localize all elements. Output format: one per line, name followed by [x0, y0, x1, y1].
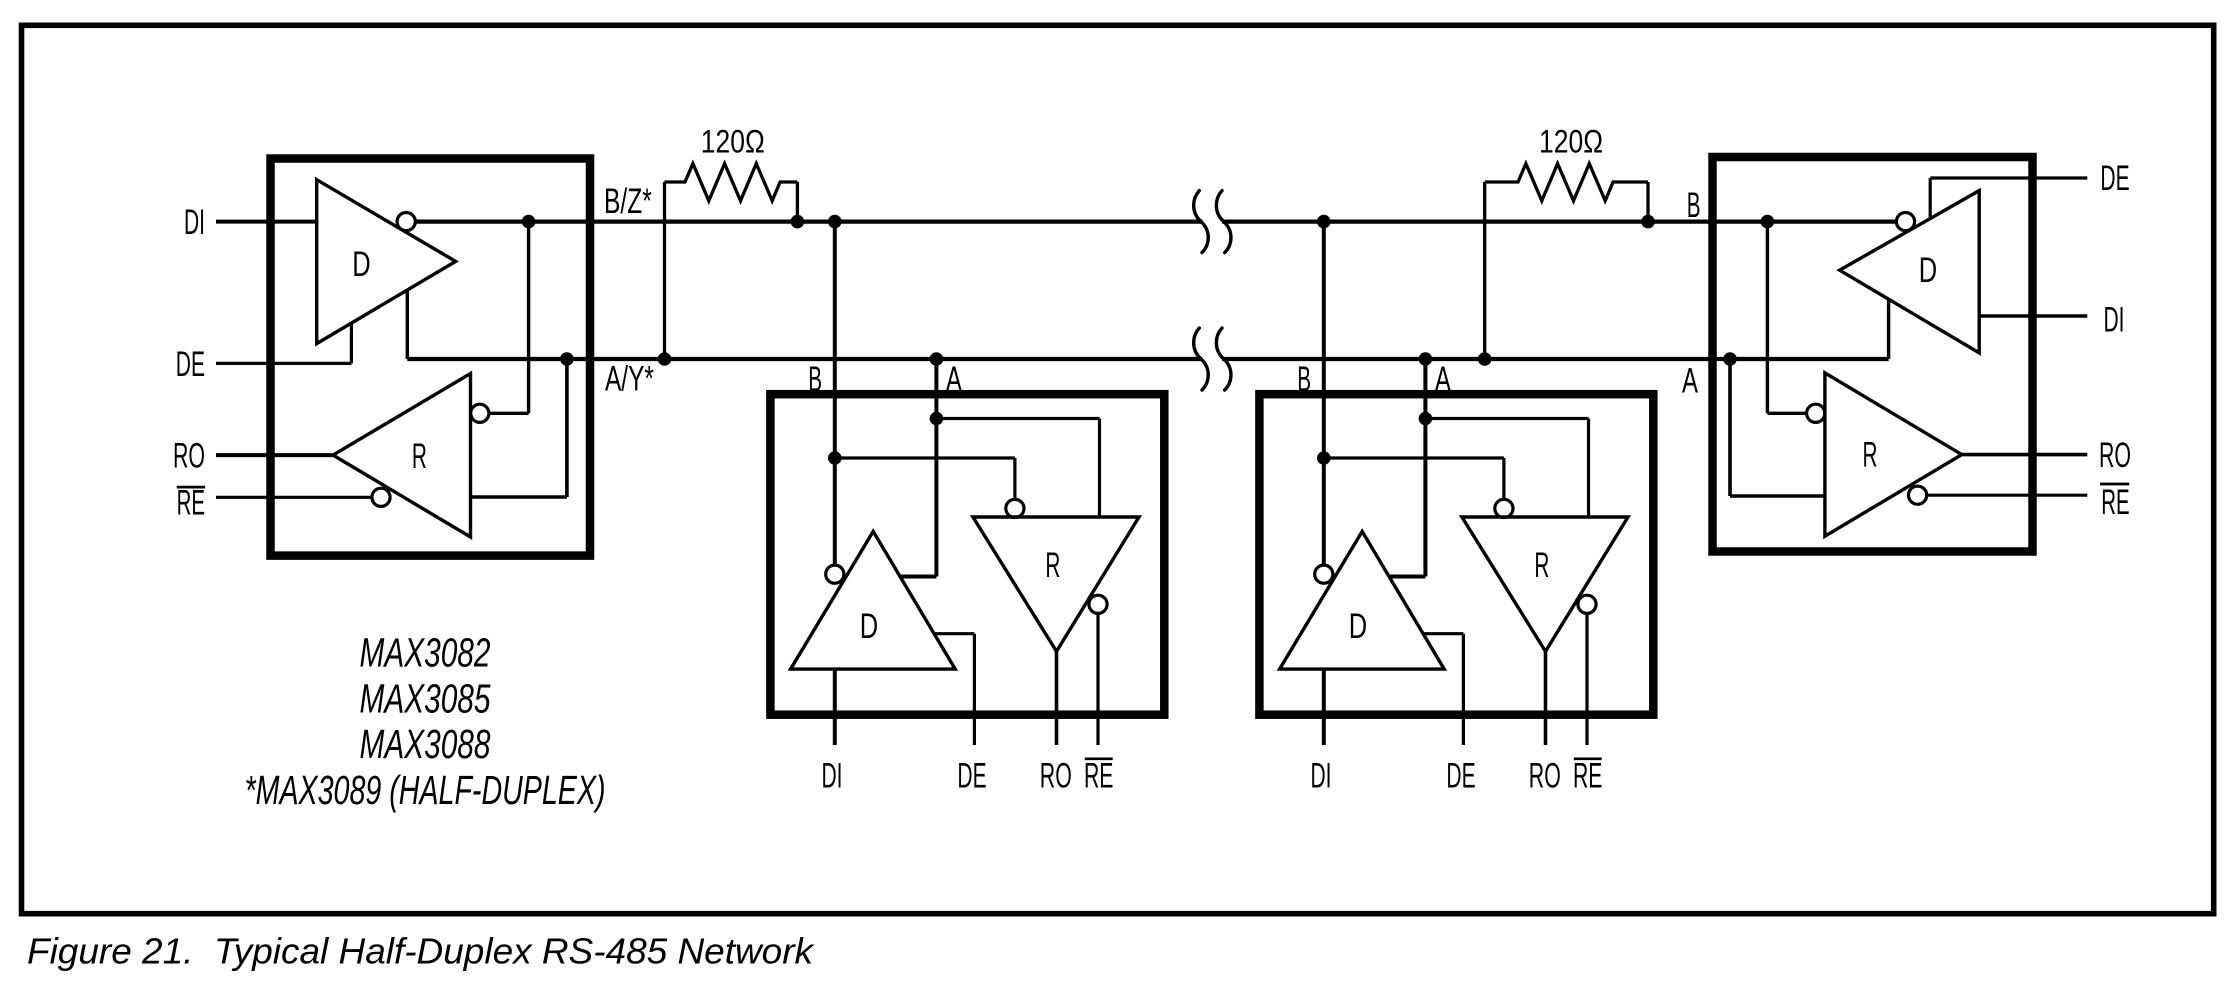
node A junction on A/Y bus for U2	[930, 352, 944, 366]
svg-text:RO: RO	[2099, 436, 2131, 475]
svg-text:RO: RO	[173, 437, 205, 476]
wire A branch to receiver noninverting input U3	[1425, 417, 1588, 420]
transceiver U1 box	[271, 159, 591, 556]
svg-text:*MAX3089 (HALF-DUPLEX): *MAX3089 (HALF-DUPLEX)	[245, 767, 606, 813]
svg-text:DI: DI	[1311, 757, 1332, 796]
wire A/Y junction down to receiver noninverting input U1	[565, 359, 569, 497]
receiver R triangle U3	[1462, 517, 1628, 651]
node A/Y junction inside U1	[560, 352, 574, 366]
wire RO output U4	[1962, 453, 2088, 457]
node B branch junction U2	[828, 451, 842, 465]
wire B/Z bus left segment	[415, 219, 1202, 223]
svg-text:MAX3085: MAX3085	[360, 675, 491, 721]
bubble receiver enable RE U1	[372, 488, 390, 506]
wire DE enable U2	[934, 632, 974, 635]
svg-text:A: A	[946, 360, 962, 399]
svg-text:RE: RE	[177, 483, 205, 522]
wire DI input U4	[1979, 314, 2087, 318]
node B junction on B/Z bus for U3	[1317, 215, 1331, 229]
svg-text:D: D	[352, 245, 370, 284]
node R2 right lead junction on B/Z	[1641, 215, 1655, 229]
svg-text:D: D	[860, 607, 878, 646]
wire driver noninverting output to A line U4	[1887, 299, 1890, 359]
svg-text:A: A	[1682, 362, 1698, 401]
wire from B/Z junction down to receiver inverting input U1	[527, 222, 530, 414]
bubble receiver inverting input U3	[1495, 499, 1513, 517]
svg-text:R: R	[412, 437, 427, 476]
wire A junction down to receiver noninverting input U4	[1728, 359, 1732, 496]
svg-text:DE: DE	[2100, 159, 2129, 198]
transceiver U4 box	[1713, 157, 2033, 552]
bubble receiver enable RE U2	[1089, 595, 1107, 613]
bubble receiver inverting input U1	[471, 404, 489, 422]
svg-text:DI: DI	[822, 757, 843, 796]
driver D triangle U4	[1840, 191, 1980, 353]
wire RE input U1	[216, 496, 372, 499]
wire B branch to receiver inverting input U3	[1324, 456, 1504, 459]
svg-text:A/Y*: A/Y*	[605, 360, 654, 399]
node R1 left lead junction on A/Y	[658, 352, 672, 366]
bubble receiver enable RE U4	[1909, 486, 1927, 504]
receiver R triangle U1	[333, 374, 471, 538]
bus break marks on A/Y line	[1194, 328, 1209, 390]
svg-text:MAX3082: MAX3082	[360, 630, 491, 676]
wire DI input U3	[1322, 669, 1326, 745]
svg-text:120Ω: 120Ω	[1539, 124, 1603, 160]
svg-text:B/Z*: B/Z*	[604, 182, 652, 221]
node A junction inside U4	[1723, 352, 1737, 366]
wire B junction down to receiver inverting input U4	[1766, 222, 1769, 414]
wire A input vertical U2	[934, 359, 938, 577]
bus break marks on B/Z line	[1194, 191, 1209, 253]
wire A branch to receiver noninverting input U2	[936, 417, 1099, 420]
wire B branch to receiver inverting input U2	[835, 456, 1015, 459]
svg-text:B: B	[1297, 360, 1311, 399]
wire R1 left lead to A/Y line	[663, 182, 666, 359]
svg-text:DI: DI	[184, 203, 205, 242]
svg-text:RE: RE	[2101, 483, 2129, 522]
svg-text:DE: DE	[957, 757, 986, 796]
resistor R1 body 120 ohm	[665, 164, 798, 201]
bubble driver inverting input U3	[1315, 565, 1333, 583]
wire B input vertical U3	[1322, 222, 1326, 566]
bubble driver inverting input U2	[826, 565, 844, 583]
svg-text:B: B	[1687, 186, 1701, 225]
wire RO output U3	[1544, 651, 1548, 745]
svg-text:B: B	[808, 360, 822, 399]
wire A input vertical U3	[1423, 359, 1427, 577]
bubble receiver inverting input U2	[1006, 499, 1024, 517]
wire R2 right lead to B/Z line	[1646, 182, 1649, 222]
svg-text:DE: DE	[176, 345, 205, 384]
svg-text:RE: RE	[1084, 757, 1114, 796]
wire B input vertical U2	[833, 222, 837, 566]
wire DE enable U3	[1423, 632, 1463, 635]
node A branch junction U3	[1419, 412, 1433, 426]
svg-text:DE: DE	[1446, 757, 1475, 796]
bubble driver inverting output U1	[397, 213, 415, 231]
receiver R triangle U2	[973, 517, 1139, 651]
bubble receiver inverting input U4	[1807, 404, 1825, 422]
wire driver noninverting output to A/Y U1	[406, 290, 409, 359]
svg-text:R: R	[1045, 546, 1060, 585]
wire DE enable U4	[1929, 178, 1932, 218]
wire DI input U1	[216, 220, 317, 224]
svg-text:RE: RE	[1573, 757, 1603, 796]
node R1 right lead junction on B/Z	[791, 215, 805, 229]
wire DE input U1	[216, 362, 351, 365]
svg-text:RO: RO	[1529, 757, 1561, 796]
driver D triangle U3	[1280, 531, 1445, 669]
node A junction on A/Y bus for U3	[1419, 352, 1433, 366]
node B branch junction U3	[1317, 451, 1331, 465]
wire R2 left lead to A/Y line	[1483, 182, 1486, 359]
svg-text:120Ω: 120Ω	[701, 124, 765, 160]
wire RE input U3	[1585, 613, 1588, 745]
wire RO output U2	[1055, 651, 1059, 745]
driver D triangle U1	[317, 180, 456, 344]
wire RE input U2	[1096, 613, 1099, 745]
driver D triangle U2	[791, 531, 956, 669]
svg-text:DI: DI	[2104, 301, 2125, 340]
svg-text:D: D	[1349, 607, 1367, 646]
wire driver noninverting output U3	[1389, 575, 1425, 579]
wire R1 right lead to B/Z line	[796, 182, 799, 222]
svg-text:RO: RO	[1040, 757, 1072, 796]
svg-text:Figure 21. Typical Half-Duple: Figure 21. Typical Half-Duplex RS-485 Ne…	[27, 931, 815, 972]
receiver R triangle U4	[1825, 373, 1962, 536]
wire A/Y bus left segment	[407, 357, 1202, 361]
wire B/Z bus right segment	[1222, 219, 1896, 223]
svg-text:R: R	[1863, 436, 1878, 475]
bubble receiver enable RE U3	[1578, 595, 1596, 613]
wire DI input U2	[833, 669, 837, 745]
svg-text:A: A	[1435, 360, 1451, 399]
wire RO output U1	[216, 453, 333, 457]
node B/Z junction inside U1	[522, 215, 536, 229]
bubble driver inverting input U4	[1896, 213, 1914, 231]
node A branch junction U2	[930, 412, 944, 426]
svg-text:MAX3088: MAX3088	[360, 721, 491, 767]
wire driver noninverting output U2	[900, 575, 936, 579]
node B junction on B/Z bus for U2	[828, 215, 842, 229]
wire A/Y bus right segment	[1222, 357, 1888, 361]
node R2 left lead junction on A/Y	[1478, 352, 1492, 366]
transceiver U3 box	[1259, 394, 1653, 715]
node B junction inside U4	[1761, 215, 1775, 229]
svg-text:D: D	[1919, 251, 1937, 290]
transceiver U2 box	[770, 394, 1164, 715]
wire RE input U4	[1927, 494, 2088, 497]
svg-text:R: R	[1534, 546, 1549, 585]
resistor R2 body 120 ohm	[1485, 164, 1648, 201]
